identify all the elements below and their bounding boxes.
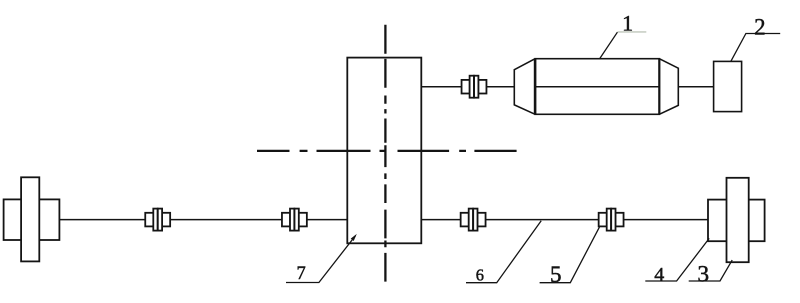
svg-text:7: 7	[296, 264, 305, 284]
svg-text:2: 2	[754, 14, 766, 39]
svg-text:4: 4	[654, 264, 664, 286]
svg-text:3: 3	[697, 262, 709, 288]
svg-text:6: 6	[476, 266, 484, 285]
svg-text:5: 5	[550, 262, 562, 287]
svg-text:1: 1	[622, 11, 633, 36]
